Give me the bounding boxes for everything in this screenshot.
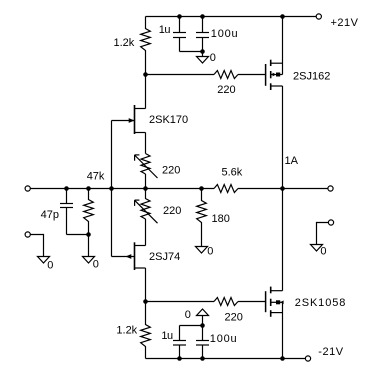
wire +21V rail down to Q1 source/body <box>282 17 284 75</box>
transistor Q2 2SK1058 N-channel MOSFET <box>266 287 284 317</box>
junction bottom rail at 100u <box>200 356 205 361</box>
svg-text:220: 220 <box>225 312 243 324</box>
junction mid at 180 <box>199 186 204 191</box>
node output return terminal <box>328 220 333 225</box>
ground bottom caps <box>197 309 209 326</box>
wire cap bottoms top section <box>180 51 203 53</box>
node -21V terminal <box>305 356 310 361</box>
svg-text:2SJ162: 2SJ162 <box>293 71 330 83</box>
junction mid at 47k <box>86 186 91 191</box>
wire mid signal rail <box>30 188 214 190</box>
wire gate feed lower <box>146 301 215 303</box>
junction lower 1.2k node <box>143 299 148 304</box>
wire Q2 source/body down to -21V rail <box>282 302 284 358</box>
wire trimmer P1 to mid rail <box>145 174 147 189</box>
wire J1 source to trimmer P1 <box>145 133 147 154</box>
svg-text:0: 0 <box>207 246 213 258</box>
ground 47k <box>83 257 95 264</box>
node input return terminal <box>25 232 30 237</box>
junction cap ground node top <box>200 49 205 54</box>
svg-text:+21V: +21V <box>331 17 359 29</box>
junction mid at trimmers <box>143 186 148 191</box>
junction mid at 47p <box>64 186 69 191</box>
wire gate branch vertical <box>111 121 113 257</box>
svg-text:180: 180 <box>212 213 230 225</box>
resistor R 1.2k top <box>141 17 151 75</box>
svg-text:220: 220 <box>163 205 181 217</box>
svg-text:100u: 100u <box>210 333 238 345</box>
resistor R 220 upper gate <box>214 71 238 79</box>
wire rail to -21V terminal <box>283 358 306 360</box>
node input terminal <box>25 186 30 191</box>
junction top rail at 100u <box>200 14 205 19</box>
svg-text:2SJ74: 2SJ74 <box>149 251 180 263</box>
wire 220 to gate of Q 2SK1058 <box>238 301 266 303</box>
potentiometer P2 220 trimmer lower <box>135 189 158 224</box>
junction 47k 47p node <box>86 232 91 237</box>
capacitor C 100u bottom <box>196 326 209 359</box>
ground 180 <box>196 247 208 254</box>
ground input return <box>38 257 50 264</box>
svg-text:100u: 100u <box>211 28 239 40</box>
capacitor C 100u top <box>196 17 209 52</box>
svg-text:2SK170: 2SK170 <box>149 114 188 126</box>
potentiometer P1 220 trimmer upper <box>135 154 158 179</box>
ground top caps <box>197 52 209 64</box>
svg-text:1.2k: 1.2k <box>116 324 137 336</box>
transistor J1 2SK170 N-JFET <box>112 105 146 134</box>
wire cap tops bottom section <box>180 325 203 327</box>
wire bottom rail -21V net <box>146 358 283 360</box>
junction bottom cap ground node <box>200 323 205 328</box>
wire 220 to gate of Q 2SJ162 <box>238 74 266 76</box>
resistor R 180 <box>197 189 207 247</box>
junction 1.2k bottom node <box>143 72 148 77</box>
wire input return to ground <box>30 235 43 257</box>
wire J2 source down to lower 1.2k node <box>145 268 147 302</box>
wire 1.2k node down to J1 drain <box>145 75 147 109</box>
svg-text:2SK1058: 2SK1058 <box>295 297 347 309</box>
svg-text:0: 0 <box>320 246 326 258</box>
svg-text:0: 0 <box>47 260 53 272</box>
wire 47p bottom to 47k <box>67 234 89 236</box>
junction top rail at right rail <box>280 14 285 19</box>
capacitor C 47p <box>60 189 73 235</box>
node +21V terminal <box>316 14 321 19</box>
junction mid at gate branch <box>109 186 114 191</box>
svg-text:5.6k: 5.6k <box>222 166 243 178</box>
transistor Q1 2SJ162 P-channel MOSFET <box>266 60 283 90</box>
wire output node to terminal <box>283 188 328 190</box>
wire rail to +21V terminal <box>283 16 317 18</box>
wire output return to ground <box>317 223 329 245</box>
capacitor C 1u bottom <box>173 326 186 359</box>
junction bottom rail at 1u <box>177 356 182 361</box>
wire gate feed upper <box>146 74 215 76</box>
svg-text:1u: 1u <box>161 330 173 342</box>
svg-text:47p: 47p <box>41 209 59 221</box>
svg-text:1A: 1A <box>285 155 299 167</box>
wire output node down to Q2 drain <box>282 189 284 291</box>
wire Q1 drain down to output node <box>282 86 284 189</box>
svg-text:0: 0 <box>210 52 216 64</box>
junction output node <box>280 186 285 191</box>
svg-text:220: 220 <box>217 84 235 96</box>
node output terminal <box>328 186 333 191</box>
wire top rail +21V net <box>146 16 283 18</box>
svg-text:0: 0 <box>93 259 99 271</box>
transistor J2 2SJ74 P-JFET <box>112 242 146 270</box>
svg-text:47k: 47k <box>87 170 105 182</box>
wire 5.6k to output node <box>238 188 283 190</box>
capacitor C 1u top <box>173 17 186 52</box>
svg-text:-21V: -21V <box>318 346 343 358</box>
resistor R 5.6k <box>214 185 238 193</box>
svg-text:220: 220 <box>162 165 180 177</box>
junction top rail at 1u <box>177 14 182 19</box>
resistor R 1.2k bottom <box>141 302 151 359</box>
svg-text:1.2k: 1.2k <box>114 37 135 49</box>
junction bottom rail at right rail <box>280 356 285 361</box>
wire trimmer P2 to J2 drain <box>145 219 147 246</box>
svg-text:1u: 1u <box>159 24 171 36</box>
svg-text:0: 0 <box>185 309 191 321</box>
ground output return <box>311 245 323 252</box>
resistor R 47k <box>84 189 94 257</box>
resistor R 220 lower gate <box>214 298 238 306</box>
